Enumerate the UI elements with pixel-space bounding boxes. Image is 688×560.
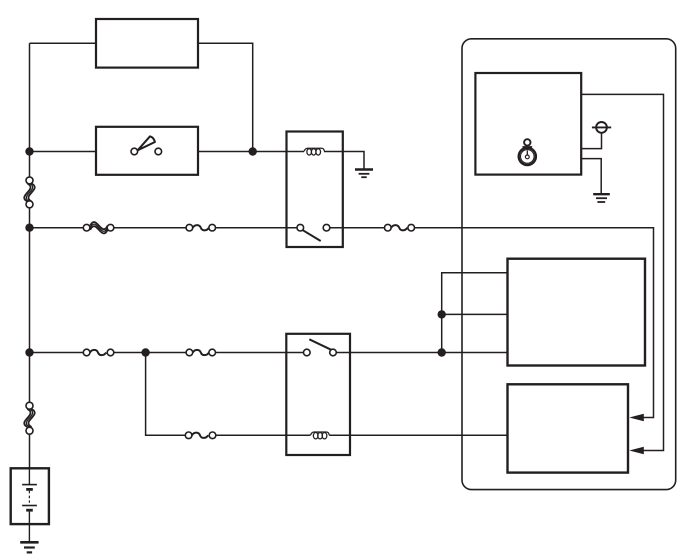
relay K2 switch contacts bbox=[304, 349, 337, 356]
relay K2 switch blade bbox=[309, 339, 331, 349]
relay K1 switch contacts bbox=[297, 224, 330, 231]
wire timer box stub to bulb bbox=[581, 130, 601, 149]
timer stopwatch icon bbox=[519, 139, 536, 165]
timer box (clock module) bbox=[475, 73, 581, 175]
ground G2 (battery ground) bbox=[20, 542, 38, 552]
switch box S1 bbox=[96, 127, 198, 175]
relay K2 coil bbox=[310, 432, 329, 439]
node junction (29.5,352.5) bbox=[25, 348, 33, 356]
ground G3 (timer ground) bbox=[593, 194, 610, 202]
fuse F2 (after relay K1) bbox=[385, 224, 415, 231]
node junction (441.7,314.4) bbox=[438, 310, 446, 318]
relay K1 switch blade bbox=[303, 230, 321, 241]
bulb symbol (circle with bar) bbox=[592, 122, 611, 133]
fuse F1 (on y=227.7 net) bbox=[186, 224, 215, 231]
wire horizontal net y=151.5 bbox=[30, 151, 305, 153]
relay K2 box bbox=[286, 334, 350, 455]
switch S1 contact terminals bbox=[131, 148, 162, 155]
wire horizontal net y=352.5 bbox=[30, 352, 508, 354]
relay K1 coil bbox=[304, 148, 325, 155]
wire timer box stub to ground bbox=[581, 159, 601, 194]
fuse F3 (on y=352.5 net, left) bbox=[83, 349, 114, 356]
node junction (441.7,352.5) bbox=[438, 348, 446, 356]
top box (component B1) bbox=[96, 19, 198, 68]
fusible link FL3 (vertical, lower) bbox=[24, 402, 35, 434]
node junction (145.6,352.5) bbox=[141, 348, 149, 356]
arrow into bottom box (upper) bbox=[629, 414, 644, 421]
battery box bbox=[11, 468, 49, 524]
wire branch x=441.7 to middle box pins bbox=[442, 273, 508, 353]
middle box (control unit) bbox=[508, 259, 646, 366]
wire horizontal net y=227.7 bbox=[30, 228, 654, 418]
fusible link FL1 (vertical, upper) bbox=[24, 177, 35, 208]
wire branch from node at (145.6,352.5) down to y=435.3 bbox=[146, 353, 508, 436]
relay K1 box bbox=[287, 132, 343, 248]
wire timer box to right vertical x=663.5 bbox=[581, 94, 663, 450]
fusible link FL2 (horizontal, on y=227.7 net) bbox=[83, 222, 114, 233]
ground G1 (relay K1 coil ground) bbox=[355, 170, 373, 178]
wire top box right branch bbox=[198, 43, 253, 151]
node junction (29.5,151.5) bbox=[25, 147, 33, 155]
wire left vertical main feed x=29.5 bbox=[29, 43, 31, 468]
wire relay K1 coil to ground bbox=[324, 152, 364, 170]
node junction (252.7,151.5) bbox=[249, 147, 257, 155]
connector module (rounded container) bbox=[462, 39, 676, 490]
node junction (29.5,227.7) bbox=[25, 224, 33, 232]
arrow into bottom box (lower) bbox=[629, 447, 644, 454]
wire top box left branch bbox=[30, 42, 97, 44]
battery cells bbox=[22, 468, 37, 541]
fuse F5 (on y=435.3 branch) bbox=[185, 432, 216, 439]
switch S1 toggle lever bbox=[138, 136, 155, 150]
bottom box (actuator unit) bbox=[508, 384, 629, 472]
fuse F4 (on y=352.5 net, right) bbox=[186, 349, 215, 356]
